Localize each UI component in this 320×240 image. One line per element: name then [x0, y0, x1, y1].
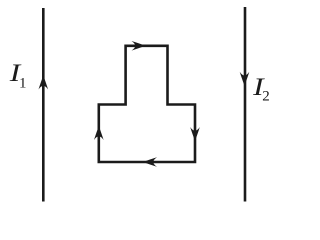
svg-text:2: 2: [262, 89, 270, 105]
svg-text:1: 1: [19, 76, 27, 92]
